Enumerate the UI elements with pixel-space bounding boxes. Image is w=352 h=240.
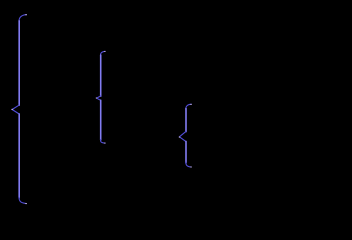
brace B3 (small blue left curly brace) <box>179 104 192 168</box>
brace B1 (large blue left curly brace) <box>11 14 26 204</box>
brace B2 (medium blue left curly brace) <box>96 51 106 144</box>
